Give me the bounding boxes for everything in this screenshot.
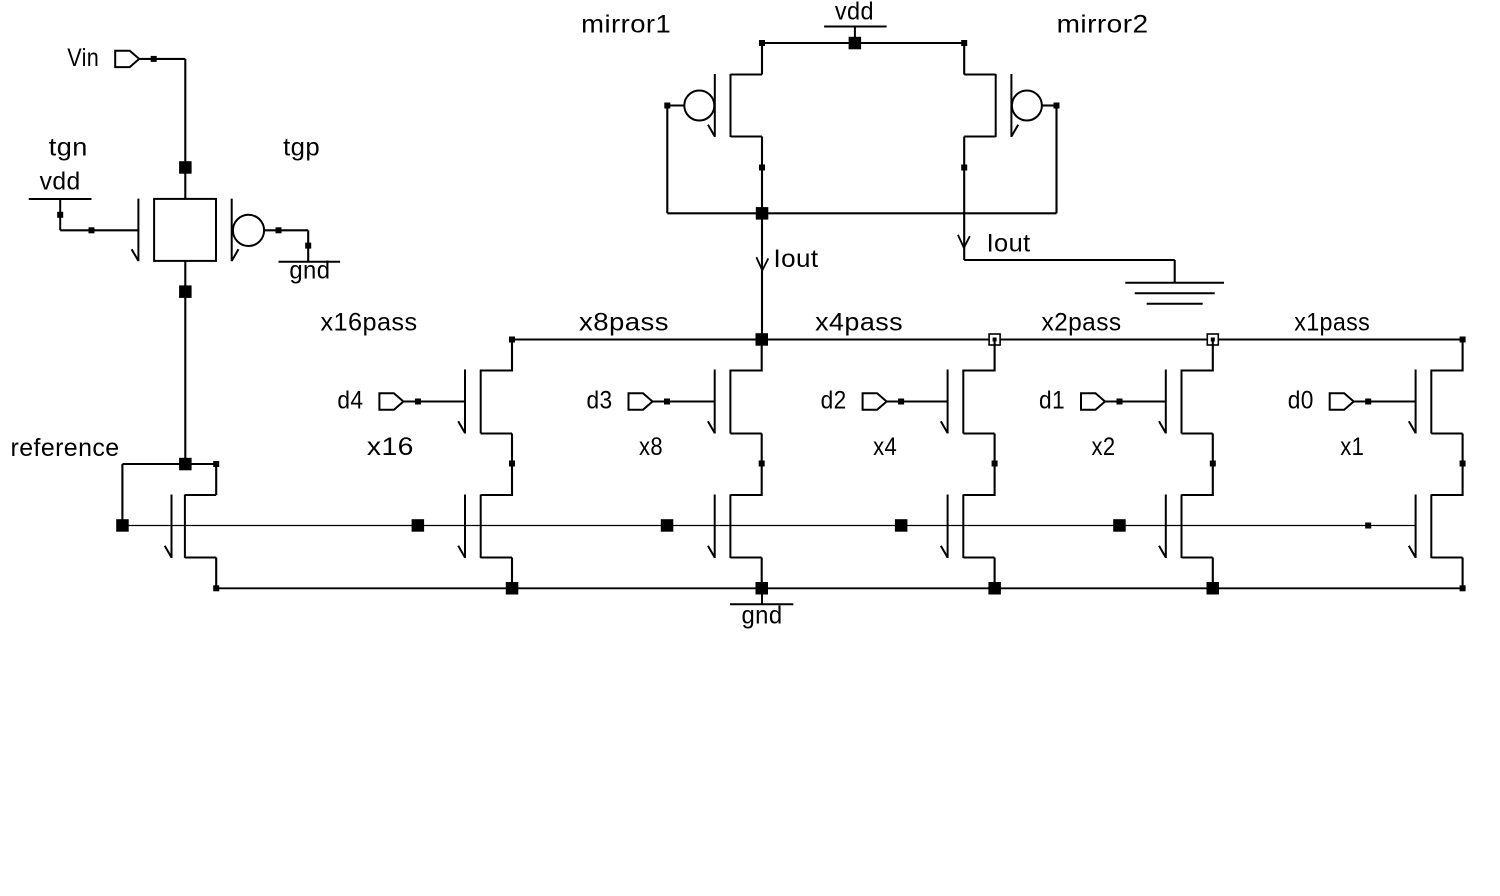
svg-text:d0: d0 xyxy=(1288,387,1314,415)
node summing rail at x8pass (Iout tap) xyxy=(756,333,769,346)
svg-text:x4: x4 xyxy=(873,433,897,461)
wire tgp gate lead down to gnd xyxy=(307,230,309,261)
gnd supply symbol (tgp) xyxy=(279,261,341,263)
wire mirror gate net left vertical xyxy=(666,106,668,214)
current source transistor x2 leads xyxy=(1182,464,1213,589)
node ground rail at x2 xyxy=(1207,582,1220,595)
svg-text:reference: reference xyxy=(11,434,120,462)
svg-text:Vin: Vin xyxy=(67,44,99,72)
label x4 xyxy=(873,433,897,461)
junction on mirror1 drain xyxy=(759,165,765,171)
current source transistor x4 (nmos gate/channel) xyxy=(941,495,964,559)
wire mirror2 drain down xyxy=(963,137,965,261)
junction on tgp gate lead xyxy=(276,227,282,233)
label gnd (tgp supply) xyxy=(289,257,330,285)
connector junction summing rail at x4pass xyxy=(989,334,1000,345)
wire reference node left xyxy=(122,463,185,465)
wire mirror2 gate lead xyxy=(1042,104,1057,106)
node ground rail at x4 xyxy=(988,582,1001,595)
wire Vin to trunk xyxy=(139,58,185,60)
svg-text:tgp: tgp xyxy=(283,134,320,162)
label x1 xyxy=(1340,433,1364,461)
junction x8pass source to x8 drain xyxy=(759,461,765,467)
label mirror1 xyxy=(581,11,671,39)
junction on d0 wire xyxy=(1365,399,1371,405)
label x2 xyxy=(1092,433,1116,461)
svg-text:d2: d2 xyxy=(821,387,847,415)
label d2 xyxy=(821,387,847,415)
wire d2 to x4pass gate xyxy=(887,400,948,402)
junction vdd rail left end xyxy=(759,40,765,46)
label x16pass xyxy=(321,309,418,337)
label mirror2 xyxy=(1057,11,1149,39)
svg-text:x1: x1 xyxy=(1340,433,1364,461)
wire mirror1 source up to vdd rail xyxy=(761,43,763,75)
node junction above transmission gate xyxy=(179,161,192,174)
junction x4pass source to x4 drain xyxy=(992,461,998,467)
input port d2 xyxy=(863,393,887,409)
junction on tgp gnd stem xyxy=(305,243,311,249)
junction mirror1 gate lead end xyxy=(664,103,670,109)
current source transistor x4 leads xyxy=(963,464,994,589)
label d4 xyxy=(337,387,363,415)
node reference rail at d1 column xyxy=(1113,519,1126,532)
label x1pass xyxy=(1294,309,1370,337)
input port d1 xyxy=(1081,393,1105,409)
Iout arrow (mirror1) xyxy=(756,257,768,270)
label Vin xyxy=(67,44,99,72)
mirror2 gate bubble xyxy=(1012,91,1042,121)
label d3 xyxy=(587,387,613,415)
junction on d4 wire xyxy=(415,399,421,405)
junction ground rail right end xyxy=(1460,585,1466,591)
node reference rail at d2 column xyxy=(895,519,908,532)
svg-text:mirror2: mirror2 xyxy=(1057,11,1149,39)
label x8pass xyxy=(579,309,669,337)
svg-text:x1pass: x1pass xyxy=(1294,309,1370,337)
pass transistor x8pass (nmos gate/channel) xyxy=(708,370,731,434)
label gnd (bottom rail) xyxy=(742,602,783,630)
pmos transistor mirror1 xyxy=(708,74,762,137)
label reference xyxy=(11,434,120,462)
vdd supply symbol (tgn) xyxy=(29,199,92,230)
tgp gate bubble xyxy=(233,215,264,246)
transmission gate nmos gate tgn xyxy=(132,199,139,262)
wire d1 to x2pass gate xyxy=(1105,400,1166,402)
net ground rail (bottom) xyxy=(216,587,1462,589)
label d0 xyxy=(1288,387,1314,415)
label x2pass xyxy=(1042,309,1122,337)
wire mirror1 drain down to summing rail xyxy=(761,137,763,340)
transmission gate pmos gate tgp xyxy=(232,199,239,262)
transmission gate U1 body xyxy=(154,199,216,261)
wire mirror gate net right vertical xyxy=(1055,106,1057,214)
current source transistor x16 (nmos gate/channel) xyxy=(458,495,481,559)
label x16 xyxy=(367,433,414,461)
wire reference node down to gate rail xyxy=(121,464,123,526)
wire reference node right xyxy=(185,463,216,465)
mirror1 gate bubble xyxy=(684,91,714,121)
junction on Vin wire xyxy=(151,56,157,62)
reference transistor leads xyxy=(185,495,216,558)
junction x2pass source to x2 drain xyxy=(1210,461,1216,467)
svg-text:x2pass: x2pass xyxy=(1042,309,1122,337)
junction on tgn gate lead xyxy=(89,227,95,233)
wire mirror1 gate lead xyxy=(667,104,684,106)
net summing rail (top) xyxy=(512,339,1463,341)
node reference junction xyxy=(179,458,192,471)
label x4pass xyxy=(815,309,903,337)
svg-text:mirror1: mirror1 xyxy=(581,11,671,39)
input port d3 xyxy=(629,393,653,409)
transistor reference (nmos gate/channel) xyxy=(165,495,185,559)
current source transistor x8 (nmos gate/channel) xyxy=(708,495,731,559)
wire tgn gate lead xyxy=(60,229,138,231)
wire mirror2 source up to vdd rail xyxy=(963,43,965,75)
wire reference source down to ground rail xyxy=(215,558,217,589)
label Iout (mirror2) xyxy=(987,229,1031,257)
junction x1pass source to x1 drain xyxy=(1460,461,1466,467)
junction on d3 wire xyxy=(664,399,670,405)
node ground rail at x8 xyxy=(756,582,769,595)
svg-text:x4pass: x4pass xyxy=(815,309,903,337)
junction ground rail left end xyxy=(213,585,219,591)
junction reference rail at d0 column xyxy=(1365,523,1371,529)
svg-text:x16pass: x16pass xyxy=(321,309,418,337)
junction reference drain corner xyxy=(213,461,219,467)
label x8 xyxy=(639,433,663,461)
node reference rail at d3 column xyxy=(661,519,674,532)
pass transistor x2pass leads xyxy=(1182,340,1213,464)
connector junction summing rail at x2pass xyxy=(1207,334,1218,345)
wire reference drain down xyxy=(215,464,217,495)
input port d4 xyxy=(379,393,403,409)
svg-text:vdd: vdd xyxy=(40,168,81,196)
junction summing rail at x16pass xyxy=(509,337,515,343)
svg-text:gnd: gnd xyxy=(289,257,330,285)
label tgp xyxy=(283,134,320,162)
wire d3 to x8pass gate xyxy=(653,400,715,402)
svg-text:gnd: gnd xyxy=(742,602,783,630)
pass transistor x8pass leads xyxy=(730,340,761,464)
current source transistor x1 leads xyxy=(1431,464,1462,589)
wire trunk lower (transmission gate down to reference node) xyxy=(184,261,186,464)
svg-text:x16: x16 xyxy=(367,433,414,461)
wire earth stem xyxy=(1174,260,1176,283)
svg-text:d3: d3 xyxy=(587,387,613,415)
label tgn xyxy=(49,134,88,162)
input port Vin xyxy=(115,51,139,67)
earth ground symbol xyxy=(1125,283,1224,304)
pass transistor x16pass leads xyxy=(481,340,512,464)
gnd supply symbol (bottom rail) xyxy=(730,588,793,604)
junction on d1 wire xyxy=(1117,399,1123,405)
node junction below transmission gate xyxy=(179,285,192,298)
pass transistor x2pass (nmos gate/channel) xyxy=(1159,370,1182,434)
pass transistor x1pass (nmos gate/channel) xyxy=(1409,370,1432,434)
vdd supply symbol (mirrors) xyxy=(824,27,887,44)
net reference gate rail xyxy=(122,525,1415,527)
junction vdd rail right end xyxy=(961,40,967,46)
junction on d2 wire xyxy=(898,399,904,405)
wire mirror2 drain right to earth xyxy=(964,259,1174,261)
label vdd (mirrors) xyxy=(835,0,874,25)
svg-text:d4: d4 xyxy=(337,387,363,415)
label Iout (mirror1) xyxy=(774,245,819,273)
label vdd (tgn supply) xyxy=(40,168,81,196)
junction on mirror2 drain xyxy=(961,165,967,171)
pass transistor x4pass leads xyxy=(963,340,994,464)
wire trunk upper (Vin down to transmission gate) xyxy=(184,59,186,199)
current source transistor x16 leads xyxy=(481,464,512,589)
pass transistor x16pass (nmos gate/channel) xyxy=(458,370,481,434)
svg-text:d1: d1 xyxy=(1039,387,1065,415)
pass transistor x1pass leads xyxy=(1431,340,1462,464)
junction reference rail left end xyxy=(116,519,129,532)
current source transistor x8 leads xyxy=(730,464,761,589)
wire d0 to x1pass gate xyxy=(1354,400,1416,402)
junction summing rail right end at x1pass xyxy=(1460,337,1466,343)
junction mirror2 gate lead end xyxy=(1054,103,1060,109)
current source transistor x2 (nmos gate/channel) xyxy=(1159,495,1182,559)
wire tgp gate lead xyxy=(264,229,308,231)
current source transistor x1 (nmos gate/channel) xyxy=(1409,495,1432,559)
svg-text:tgn: tgn xyxy=(49,134,88,162)
svg-text:x2: x2 xyxy=(1092,433,1116,461)
wire vdd rail xyxy=(762,42,964,44)
label d1 xyxy=(1039,387,1065,415)
wire d4 to x16pass gate xyxy=(403,400,465,402)
svg-text:vdd: vdd xyxy=(835,0,874,25)
Iout arrow (mirror2) xyxy=(958,235,970,248)
svg-text:x8pass: x8pass xyxy=(579,309,669,337)
svg-text:Iout: Iout xyxy=(774,245,819,273)
svg-text:Iout: Iout xyxy=(987,229,1031,257)
junction vdd rail at supply xyxy=(849,37,862,50)
junction x16pass source to x16 drain xyxy=(509,461,515,467)
node mirror gate net to mirror1 drain xyxy=(756,207,769,220)
junction on vdd stem xyxy=(57,212,63,218)
pass transistor x4pass (nmos gate/channel) xyxy=(941,370,964,434)
node ground rail at x16 xyxy=(506,582,519,595)
svg-text:x8: x8 xyxy=(639,433,663,461)
node reference rail at d4 column xyxy=(412,519,425,532)
wire mirror gate net horizontal xyxy=(667,212,1056,214)
input port d0 xyxy=(1330,393,1354,409)
pmos transistor mirror2 xyxy=(964,74,1018,137)
